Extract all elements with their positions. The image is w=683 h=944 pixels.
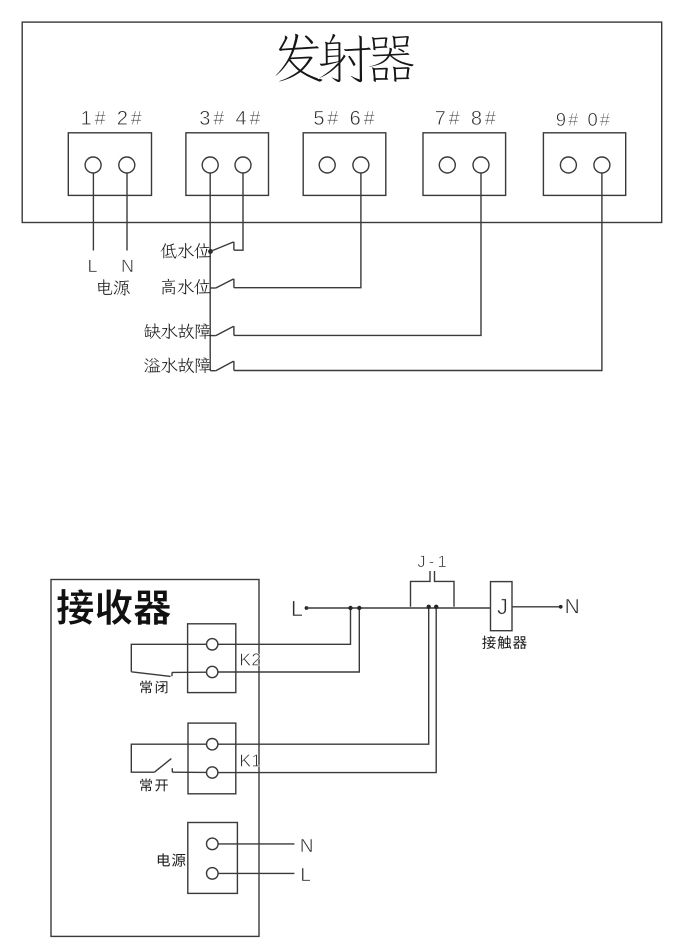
common wire from terminal 3# down [209, 173, 211, 371]
wire 常闭 contact to K2 lower terminal [172, 671, 207, 673]
label L (line feed) [293, 601, 303, 616]
label 低水位 (low water level) [161, 243, 211, 259]
switch contact tick 常开 [171, 768, 173, 772]
labels 9# 0# [557, 113, 610, 126]
wire power lower terminal to L [218, 872, 294, 874]
label N (mains neutral) [122, 260, 132, 272]
K1 lower terminal circle [207, 767, 218, 778]
receiver enclosure box [51, 580, 259, 937]
terminal 9# circle [560, 157, 576, 173]
wire from terminal 1# down to L [92, 173, 94, 251]
switch stub 高水位 [210, 287, 216, 289]
label J-1 (relay contact) [418, 556, 446, 568]
label K1 [241, 754, 261, 766]
receiver power terminal block 电源 [188, 823, 238, 894]
label N (receiver mains) [301, 839, 312, 852]
terminal block 9#/0# box [543, 133, 625, 196]
node dot N end [559, 605, 563, 609]
relay contact J-1 left leg [411, 571, 431, 607]
switch stub 溢水故障 [210, 370, 216, 372]
wire from terminal 4# down-left to low-level switch [234, 173, 243, 250]
label 电源 (power) top [98, 279, 130, 295]
junction dot K2 upper riser [348, 606, 352, 610]
K1 upper terminal circle [207, 739, 218, 750]
labels 5# 6# [314, 111, 374, 125]
label 常闭 (normally closed) [140, 681, 167, 694]
wire K1 lower terminal to J-1 right node [218, 607, 436, 773]
wire K2 upper terminal to L line [218, 608, 351, 644]
junction dot J-1 to K1 upper [427, 605, 431, 609]
labels 1# 2# [82, 111, 142, 125]
wire K2 upper terminal left loop [131, 644, 206, 672]
switch stub 缺水故障 [210, 335, 216, 337]
switch blade 低水位 (low water level, closed) [211, 242, 234, 252]
relay K2 terminal block [188, 624, 236, 693]
label 接触器 (contactor) [482, 636, 526, 649]
labels 7# 8# [436, 111, 496, 125]
wire K1 upper terminal left loop [131, 744, 206, 772]
terminal block 1#/2# box [68, 133, 151, 196]
label 溢水故障 (overflow fault) [144, 358, 210, 374]
title text 接收器 (receiver) [57, 589, 171, 625]
label N (line return) [566, 599, 578, 613]
junction dot K2 lower riser [357, 606, 361, 610]
label L (receiver mains) [302, 868, 310, 881]
label 电源 (power) bottom [158, 853, 186, 866]
wire L feed to contactor J [307, 607, 491, 609]
terminal block 7#/8# box [423, 133, 506, 196]
title text 发射器 (transmitter) [275, 33, 414, 82]
contactor coil J box [491, 582, 513, 631]
junction dot node 3# common / low-level switch [208, 249, 213, 254]
wire K2 lower terminal to L line [218, 608, 359, 672]
terminal 6# circle [353, 157, 369, 173]
wire contactor J to N [512, 606, 561, 608]
terminal 5# circle [319, 157, 335, 173]
switch contact tick 缺水故障 [233, 326, 235, 335]
switch blade 缺水故障 (no-water fault) [216, 326, 234, 335]
wire power upper terminal to N [218, 843, 294, 845]
switch blade 常闭 (normally closed) [131, 672, 170, 677]
wire 常开 contact to K1 lower terminal [172, 771, 206, 773]
terminal block 3#/4# box [186, 133, 269, 196]
wire K1 upper terminal to J-1 left node [218, 607, 429, 744]
terminal block 5#/6# box [303, 133, 386, 196]
transmitter enclosure box [22, 22, 662, 222]
terminal 7# circle [439, 157, 455, 173]
label 常开 (normally open) [140, 779, 168, 792]
terminal 4# circle [235, 157, 251, 173]
K2 upper terminal circle [207, 639, 218, 650]
relay K1 terminal block [188, 723, 236, 794]
label 高水位 (high water level) [162, 279, 211, 295]
switch contact tick 溢水故障 [233, 361, 235, 370]
power upper terminal circle [207, 838, 219, 850]
terminal 3# circle [202, 157, 218, 173]
wire 缺水故障 switch to terminal 8# [234, 173, 481, 335]
power lower terminal circle [207, 868, 219, 880]
node dot L feed [305, 606, 309, 610]
junction dot J-1 to K1 lower [434, 605, 438, 609]
label L (mains live) [89, 260, 97, 272]
wire from terminal 2# down to N [126, 173, 128, 251]
labels 3# 4# [200, 111, 260, 125]
switch blade 高水位 (high water level) [216, 279, 234, 288]
wire 高水位 switch to terminal 6# [234, 173, 361, 288]
switch blade 溢水故障 (overflow fault) [216, 361, 234, 371]
label K2 [241, 653, 260, 665]
switch contact tick 常闭 [171, 672, 173, 676]
switch contact tick 高水位 [233, 279, 235, 288]
label 缺水故障 (no-water fault) [144, 323, 211, 339]
label J (contactor coil) [497, 599, 506, 614]
K2 lower terminal circle [207, 666, 218, 677]
terminal 2# circle [119, 157, 135, 173]
wire 溢水故障 switch to terminal 0# [234, 173, 602, 371]
switch blade 常开 (normally open) [154, 759, 171, 773]
terminal 8# circle [473, 157, 489, 173]
relay contact J-1 right leg [435, 571, 455, 607]
switch contact tick 低水位 [233, 242, 235, 250]
terminal 1# circle [85, 157, 101, 173]
terminal 0# circle [594, 157, 610, 173]
